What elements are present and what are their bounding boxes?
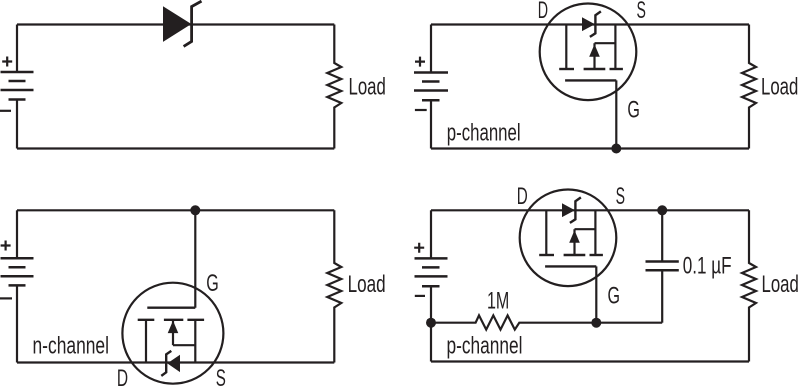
Q2 body diode (167, 355, 180, 372)
svg-text:Load: Load (348, 271, 386, 298)
capacitor C1 plates (646, 262, 679, 271)
Q3 gate bar (545, 265, 596, 267)
svg-text:Load: Load (761, 74, 798, 101)
op circle p-channel MOSFET Q3 (520, 190, 617, 287)
Q1 channel segments (559, 68, 623, 70)
wire top rail circuit 2 (431, 23, 749, 25)
Q2 body diode schottky bar (161, 351, 171, 376)
svg-text:D: D (117, 365, 128, 387)
Q3 body arrow (569, 230, 580, 243)
svg-text:D: D (538, 0, 548, 24)
wire left rail lower circuit 3 (16, 285, 18, 362)
wire left rail lower circuit 2 (430, 100, 432, 148)
battery BT2 (414, 73, 448, 101)
wire bottom rail circuit 2 (431, 147, 749, 149)
wire left rail lower circuit 1 (16, 100, 18, 149)
Q2 channel segments (138, 319, 204, 321)
label + BT3 (1, 241, 11, 251)
Q1 source stub (614, 25, 616, 70)
label - BT3 (0, 297, 12, 299)
Q3 drain stub (545, 210, 547, 255)
Q1 gate bar (565, 79, 616, 81)
resistor Load circuit 4 (742, 210, 756, 361)
node gate junction circuit 2 (611, 144, 621, 154)
wire bottom rail circuit 3 (17, 361, 334, 363)
schottky cathode bar D1 (184, 1, 202, 46)
svg-text:p-channel: p-channel (447, 332, 523, 359)
wire left rail upper circuit 4 (430, 210, 432, 258)
Q1 body vertical (593, 43, 595, 69)
Q3 body vertical (573, 229, 575, 255)
Q3 body line (575, 228, 596, 230)
Q1 body line (595, 42, 616, 44)
wire top rail circuit 4 (431, 209, 749, 211)
Q2 body arrow (168, 321, 179, 334)
Q1 body arrow (589, 44, 600, 57)
op circle p-channel MOSFET Q1 (540, 4, 637, 101)
svg-text:1M: 1M (487, 288, 509, 315)
resistor Load circuit 2 (742, 25, 756, 149)
svg-text:Load: Load (762, 271, 799, 298)
svg-text:G: G (608, 283, 621, 310)
label + BT2 (415, 57, 425, 67)
svg-text:Load: Load (349, 74, 386, 101)
wire bottom rail circuit 4 (431, 360, 749, 362)
Q2 body vertical (172, 320, 174, 345)
Q2 gate bar (147, 307, 195, 309)
resistor 1M with wire (431, 315, 662, 329)
svg-text:n-channel: n-channel (33, 333, 110, 360)
schottky diode D1 (163, 6, 191, 42)
Q3 source stub (594, 210, 596, 255)
svg-text:p-channel: p-channel (447, 120, 521, 147)
capacitor C1 lower lead (661, 271, 663, 323)
resistor Load circuit 3 (327, 210, 341, 362)
Q1 drain stub (565, 25, 567, 70)
svg-text:0.1 µF: 0.1 µF (683, 253, 732, 280)
resistor Load circuit 1 (327, 25, 341, 149)
battery BT4 (415, 258, 448, 286)
wire top rail circuit 3 (17, 209, 334, 211)
svg-text:D: D (517, 183, 528, 210)
wire top rail circuit 1 (17, 23, 334, 25)
label + BT4 (414, 243, 424, 253)
wire left rail upper circuit 2 (430, 25, 432, 73)
Q1 body diode (582, 17, 595, 31)
label - BT1 (0, 110, 11, 112)
node gate junction circuit 4 (591, 318, 601, 328)
svg-text:G: G (627, 96, 640, 123)
wire Q1 gate lead (615, 80, 617, 148)
label - BT2 (415, 109, 427, 111)
label - BT4 (415, 295, 425, 297)
Q1 body diode schottky bar (590, 11, 601, 37)
Q3 body diode schottky bar (570, 197, 581, 223)
wire Q2 gate lead (194, 210, 196, 307)
svg-text:S: S (616, 183, 625, 210)
Q2 drain stub (145, 320, 147, 363)
Q2 source stub (194, 320, 196, 363)
node battery-gate junction circuit 4 (426, 318, 436, 328)
capacitor C1 upper lead (661, 210, 663, 261)
svg-text:S: S (216, 365, 226, 387)
battery BT3 (1, 258, 34, 285)
wire bottom rail circuit 1 (17, 147, 334, 149)
node gate junction circuit 3 (190, 205, 200, 215)
wire left rail upper circuit 3 (16, 210, 18, 258)
Q2 body line (173, 344, 195, 346)
node capacitor junction circuit 4 (657, 205, 667, 215)
label + BT1 (2, 57, 12, 67)
wire left rail lower circuit 4 (430, 286, 432, 361)
wire left rail upper circuit 1 (16, 25, 18, 73)
svg-text:S: S (637, 0, 646, 24)
battery BT1 (1, 72, 34, 100)
op circle n-channel MOSFET Q2 (122, 283, 223, 384)
Q3 body diode (562, 203, 575, 217)
wire Q3 gate lead (595, 266, 597, 322)
Q3 channel segments (539, 254, 603, 256)
svg-text:G: G (206, 270, 219, 297)
